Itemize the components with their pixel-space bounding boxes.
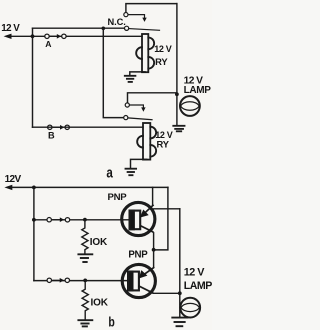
node junction bus/row1	[32, 218, 36, 222]
lamp 1 (12V LAMP)	[176, 94, 178, 125]
svg-text:PNP: PNP	[108, 192, 128, 203]
svg-text:b: b	[108, 314, 114, 330]
wire B to coil 2	[33, 126, 144, 128]
node junction contact feed	[102, 27, 106, 31]
relay coil RY1	[142, 34, 148, 72]
wire Q1 emitter to rail	[152, 187, 154, 205]
wire lamp column down	[179, 209, 181, 293]
switch A	[45, 34, 49, 38]
node junction 12V/bus	[31, 34, 35, 38]
wire contact feed (top)	[33, 27, 125, 29]
wire bus vertical (circuit b)	[33, 187, 35, 280]
ground below coil RY2	[131, 159, 147, 168]
node junction Q1/Q2	[152, 248, 156, 252]
wire right column (rail to mid junction)	[154, 187, 168, 250]
svg-text:12 V: 12 V	[154, 44, 172, 54]
node junction resistor 1	[83, 218, 87, 222]
resistor R2 10K	[82, 280, 88, 319]
switch row 1	[34, 219, 129, 221]
resistor R1 10K	[82, 220, 88, 254]
lamp 2 (12V LAMP)	[179, 293, 181, 317]
svg-text:N.C.: N.C.	[108, 17, 126, 27]
node junction lamp feed	[175, 92, 179, 96]
switch B	[48, 125, 52, 129]
svg-text:IOK: IOK	[90, 237, 108, 248]
svg-text:A: A	[45, 39, 51, 49]
wire Q2 collector to lamp column	[154, 292, 180, 294]
svg-text:IOK: IOK	[91, 297, 109, 308]
Q1 collector	[141, 226, 153, 232]
svg-text:PNP: PNP	[128, 250, 148, 261]
node junction rail/bus	[32, 186, 36, 190]
wire Q1 collector down	[153, 233, 155, 250]
svg-text:12 V: 12 V	[1, 23, 20, 34]
svg-text:LAMP: LAMP	[184, 85, 212, 96]
Q1 emitter (arrow into base)	[145, 205, 154, 213]
node junction lamp 2	[178, 291, 182, 295]
wire Q2 emitter from junction	[153, 250, 155, 267]
wire right column (lamp feed, circuit a)	[176, 4, 178, 95]
relay contact 2 (lower N.C.)	[128, 93, 177, 103]
svg-text:RY: RY	[155, 56, 168, 67]
svg-text:a: a	[106, 164, 113, 181]
wire vertical 103 down to contact 2	[103, 28, 124, 117]
svg-text:RY: RY	[157, 138, 170, 149]
Q2 emitter (arrow into base)	[144, 268, 153, 275]
node junction resistor 2	[83, 279, 87, 283]
wire bus vertical (circuit a 12V bus)	[32, 28, 34, 127]
Q2 collector	[139, 286, 152, 293]
switch row 2	[34, 280, 127, 282]
svg-text:12 V: 12 V	[184, 267, 206, 279]
svg-text:B: B	[48, 130, 55, 140]
relay coil RY2	[143, 123, 150, 160]
svg-text:LAMP: LAMP	[184, 280, 212, 292]
wire 12V supply with left arrow (circuit a)	[8, 35, 142, 37]
svg-text:12V: 12V	[5, 174, 22, 185]
wire 12V rail with left arrow (circuit b)	[9, 186, 168, 188]
ground below coil RY1	[130, 72, 145, 76]
wire Q1 lamp branch (horizontal)	[154, 208, 180, 210]
